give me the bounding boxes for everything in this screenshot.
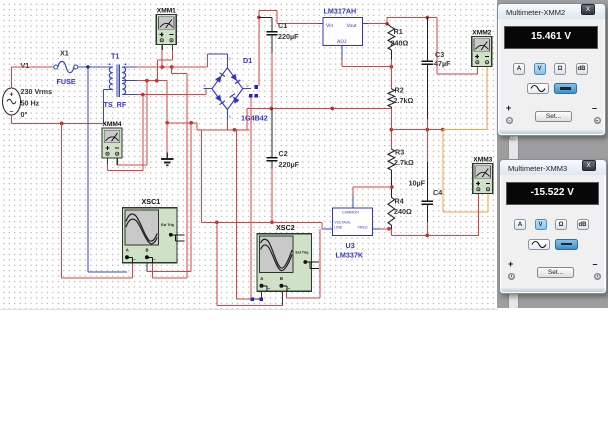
svg-text:240Ω: 240Ω [394, 207, 412, 216]
svg-text:C4: C4 [433, 188, 442, 197]
svg-text:230 Vrms: 230 Vrms [21, 87, 53, 96]
svg-text:0°: 0° [21, 110, 28, 119]
svg-text:240Ω: 240Ω [391, 39, 409, 48]
svg-text:U3: U3 [346, 241, 355, 250]
svg-text:220µF: 220µF [279, 160, 300, 169]
svg-text:XMM2: XMM2 [472, 30, 491, 37]
svg-text:220µF: 220µF [278, 32, 299, 41]
svg-text:47µF: 47µF [434, 59, 451, 68]
svg-text:XMM3: XMM3 [473, 157, 492, 164]
svg-text:2.7kΩ: 2.7kΩ [394, 158, 414, 167]
svg-text:R3: R3 [395, 148, 404, 157]
svg-text:Ext Trig: Ext Trig [161, 223, 174, 227]
svg-text:1: 1 [246, 84, 248, 88]
svg-text:XSC2: XSC2 [276, 223, 295, 232]
svg-text:C2: C2 [279, 149, 288, 158]
svg-text:ADJ: ADJ [337, 39, 347, 45]
svg-text:–: – [10, 108, 14, 115]
svg-text:XSC1: XSC1 [142, 197, 161, 206]
svg-text:4: 4 [204, 84, 206, 88]
svg-text:Vout: Vout [347, 23, 358, 29]
svg-text:2.7kΩ: 2.7kΩ [394, 96, 414, 105]
svg-text:C1: C1 [278, 21, 287, 30]
svg-text:COMMON: COMMON [342, 211, 359, 215]
svg-text:R2: R2 [395, 86, 404, 95]
svg-text:3: 3 [229, 115, 231, 119]
svg-text:LINE: LINE [334, 226, 343, 230]
svg-text:Ext Trig: Ext Trig [296, 250, 309, 254]
svg-text:R4: R4 [395, 197, 404, 206]
svg-text:R1: R1 [394, 27, 403, 36]
svg-text:D1: D1 [243, 56, 252, 65]
svg-text:A: A [260, 276, 263, 281]
svg-text:B: B [146, 248, 149, 253]
svg-text:A: A [126, 248, 129, 253]
svg-text:1G4B42: 1G4B42 [241, 114, 268, 123]
svg-text:VREG: VREG [358, 226, 368, 230]
svg-text:50 Hz: 50 Hz [21, 99, 40, 108]
svg-text:B: B [280, 276, 283, 281]
svg-text:LM337K: LM337K [336, 251, 364, 260]
svg-text:FUSE: FUSE [57, 77, 76, 86]
svg-text:LM317AH: LM317AH [324, 7, 357, 16]
svg-text:+: + [9, 91, 13, 98]
svg-text:XMM1: XMM1 [157, 8, 176, 15]
svg-text:T1: T1 [111, 52, 119, 61]
svg-text:XMM4: XMM4 [103, 121, 122, 128]
svg-text:V1: V1 [21, 61, 30, 70]
svg-text:Vin: Vin [326, 23, 333, 29]
svg-text:C3: C3 [435, 50, 444, 59]
svg-text:2: 2 [229, 57, 231, 61]
svg-text:TS_RF: TS_RF [104, 100, 127, 109]
svg-text:10µF: 10µF [409, 179, 426, 188]
svg-text:X1: X1 [60, 49, 69, 58]
svg-text:VOLTAGE: VOLTAGE [334, 220, 351, 224]
